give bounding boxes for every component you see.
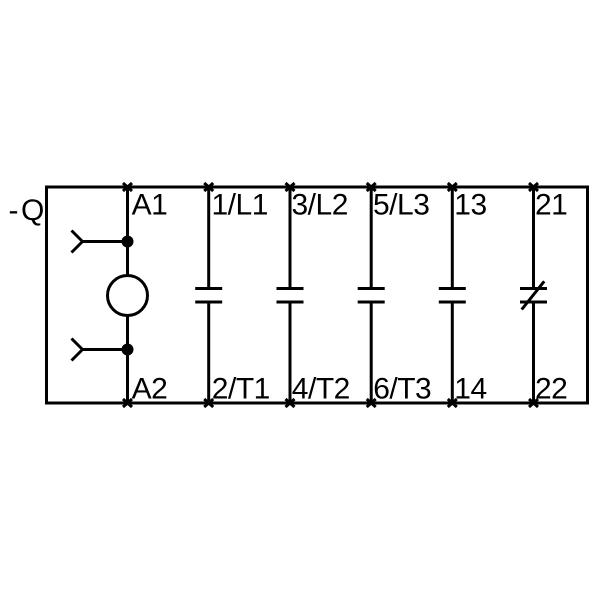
terminal cross 4/T2 [286,399,295,407]
svg-text:2/T1: 2/T1 [212,373,270,406]
terminal cross 2/T1 [204,399,213,407]
svg-text:4/T2: 4/T2 [292,373,350,406]
auxiliary NO contact 13-14 [439,187,466,403]
svg-text:14: 14 [454,373,486,406]
wire: segment from terminal 5/L3 [370,187,373,289]
svg-text:22: 22 [535,373,567,406]
main NO contact 1/L1-2/T1 [195,187,222,403]
terminal cross 22 [529,399,538,407]
terminal cross 3/L2 [286,183,295,191]
svg-text:1/L1: 1/L1 [212,188,268,221]
main NO contact 3/L2-4/T2 [277,187,304,403]
svg-text:A2: A2 [132,373,168,406]
terminal cross 1/L1 [204,183,213,191]
svg-text:21: 21 [535,188,567,221]
wire: coil branch lower segment (coil to A2) [126,316,129,403]
svg-text:5/L3: 5/L3 [373,188,429,221]
contact bar lower (21-22) [520,301,547,304]
contact bar upper (13-14) [439,287,466,290]
fork connector symbol lower [72,339,83,361]
svg-text:A1: A1 [132,188,168,221]
coil -Q (operating coil circle) [108,276,148,316]
wire: upper coil feed horizontal [83,240,128,243]
contact bar upper (5/L3-6/T3) [358,287,385,290]
wire: segment to terminal 22 [532,302,535,403]
auxiliary NC contact 21-22 [520,187,547,403]
contact bar upper (1/L1-2/T1) [195,287,222,290]
contact bar lower (3/L2-4/T2) [277,301,304,304]
contact bar lower (1/L1-2/T1) [195,301,222,304]
junction dot lower (coil feed / A2 branch) [122,344,134,356]
wire: segment from terminal 21 [532,187,535,289]
NC slash stroke (21-22) [522,281,545,309]
wire: segment from terminal 1/L1 [207,187,210,289]
wire: lower coil feed horizontal [83,348,128,351]
wire: segment to terminal 14 [451,302,454,403]
terminal cross 6/T3 [367,399,376,407]
svg-text:13: 13 [454,188,486,221]
contact bar upper (3/L2-4/T2) [277,287,304,290]
terminal cross A2 [123,399,132,407]
terminal cross 5/L3 [367,183,376,191]
terminal cross A1 [123,183,132,191]
terminal cross 14 [448,399,457,407]
contactor -Q body outline (top/bottom edges are the terminal buses) [47,187,588,403]
wire: coil branch upper segment (A1 to coil) [126,187,129,275]
contact bar upper (21-22) [520,287,547,290]
main NO contact 5/L3-6/T3 [358,187,385,403]
fork connector symbol upper [72,231,83,253]
wire: segment to terminal 2/T1 [207,302,210,403]
wire: segment to terminal 4/T2 [289,302,292,403]
wire: segment to terminal 6/T3 [370,302,373,403]
svg-text:6/T3: 6/T3 [373,373,431,406]
junction dot upper (coil feed / A1 branch) [122,236,134,248]
svg-text:Q: Q [21,194,44,227]
contact bar lower (5/L3-6/T3) [358,301,385,304]
terminal cross 21 [529,183,538,191]
wire: segment from terminal 13 [451,187,454,289]
wire: segment from terminal 3/L2 [289,187,292,289]
terminal cross 13 [448,183,457,191]
contact bar lower (13-14) [439,301,466,304]
svg-text:3/L2: 3/L2 [292,188,348,221]
svg-text:-: - [9,194,19,227]
